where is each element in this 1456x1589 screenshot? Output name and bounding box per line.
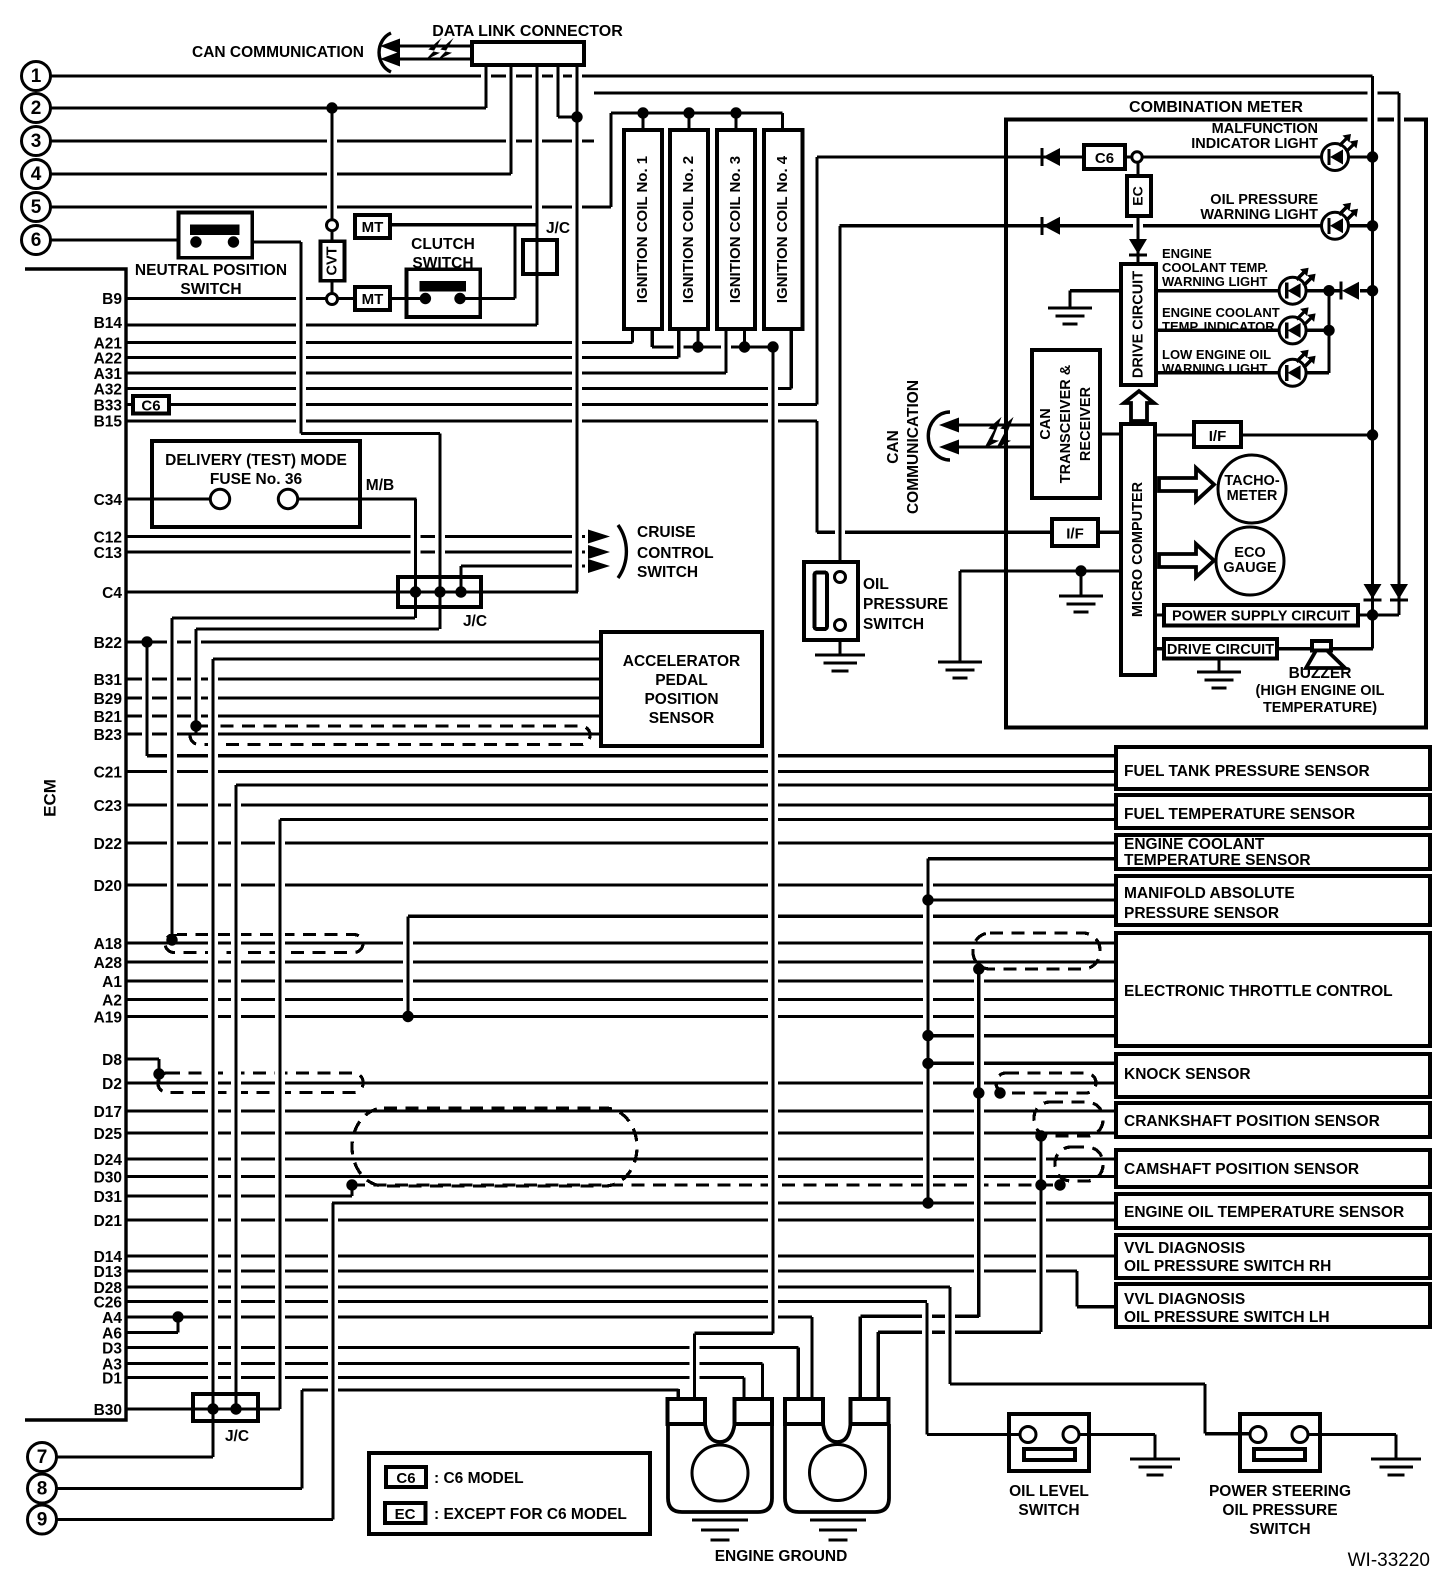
oil pressure switch contact upper (835, 572, 846, 583)
junction dot coil rail 2 (683, 107, 694, 118)
svg-text:B23: B23 (94, 727, 123, 744)
svg-text:(HIGH ENGINE OIL: (HIGH ENGINE OIL (1256, 683, 1385, 699)
stub oil level switch to ground (1153, 1435, 1156, 1460)
wire D13 (126, 1269, 1077, 1272)
engine ground connector right (785, 1399, 823, 1424)
svg-text:B14: B14 (94, 315, 123, 332)
svg-text:B30: B30 (94, 1402, 122, 1419)
wire D24 (126, 1157, 1116, 1160)
wire D13 to VVL LH (1077, 1305, 1116, 1308)
wire junction connector branch 2 (196, 627, 439, 630)
svg-text:CAN: CAN (885, 430, 902, 464)
vertical DLC pin 5 to C4 junction (572, 71, 582, 586)
svg-text:D13: D13 (94, 1264, 123, 1281)
CVT box (321, 241, 345, 280)
vertical MIL branch through EC connector to drive circuit (1133, 169, 1143, 259)
svg-text:SWITCH: SWITCH (637, 564, 698, 581)
stub D8 to D2 shield (157, 1059, 160, 1076)
svg-text:CRANKSHAFT POSITION SENSOR: CRANKSHAFT POSITION SENSOR (1124, 1113, 1380, 1130)
wire B9 to CVT circle (126, 297, 327, 300)
junction connector J/C small box (523, 240, 557, 274)
wire oil pressure warning light row (840, 224, 1322, 227)
svg-text:ELECTRONIC THROTTLE CONTROL: ELECTRONIC THROTTLE CONTROL (1124, 983, 1393, 1000)
wire B14 (126, 323, 537, 326)
MT box lower (355, 287, 390, 310)
svg-text:ECO: ECO (1234, 545, 1265, 561)
svg-text:B9: B9 (102, 291, 122, 308)
svg-text:DATA LINK CONNECTOR: DATA LINK CONNECTOR (432, 23, 623, 40)
wire micro computer to power supply circuit (1155, 613, 1164, 616)
fuse terminal circle right (278, 489, 297, 508)
vertical shield ground drain (974, 975, 984, 1311)
tachometer circle (1218, 455, 1286, 523)
svg-text:SWITCH: SWITCH (863, 616, 924, 633)
vertical D28 drop (945, 1293, 955, 1378)
micro computer box (1121, 424, 1155, 675)
ground oil pressure switch (815, 653, 865, 656)
svg-text:D25: D25 (94, 1126, 123, 1143)
wire sensor ground bus to MAP sensor (928, 898, 1116, 901)
ECM pin circle 9 (28, 1505, 57, 1534)
vertical fuel temp sensor line to B30 (275, 826, 285, 1404)
wire D17 (126, 1109, 1116, 1112)
svg-text:CAN: CAN (1038, 408, 1054, 439)
leg ignition coil 1 signal (628, 335, 638, 337)
wire C21 (126, 770, 1116, 773)
svg-text:OIL PRESSURE: OIL PRESSURE (1210, 192, 1318, 208)
wire pin 9 to engine oil temp sensor (332, 1201, 1116, 1204)
svg-text:IGNITION COIL No. 2: IGNITION COIL No. 2 (680, 156, 697, 303)
junction dot coil ground drop (767, 341, 778, 352)
svg-text:EC: EC (1130, 186, 1146, 205)
oil pressure warning light LED (1322, 212, 1349, 239)
wire diode to rail (1360, 289, 1373, 292)
junction dot LED chain 1 (1323, 285, 1334, 296)
wire circle to MT box (338, 297, 356, 300)
wire B30 through junction connector (126, 1407, 280, 1410)
wire B31 (126, 677, 603, 680)
diode down to drive circuit (1129, 253, 1147, 256)
CVT connector circle lower (327, 294, 338, 305)
wire MIL LED to rail (1349, 155, 1373, 158)
wire junction to accelerator pedal sensor (213, 657, 603, 660)
junction dot ground bus knock (922, 1058, 933, 1069)
junction dot J/C B30 2 (230, 1403, 241, 1414)
svg-text:RECEIVER: RECEIVER (1078, 386, 1094, 461)
vertical DLC pin 4 (553, 71, 563, 111)
wire micro computer to drive circuit (1155, 647, 1164, 650)
svg-text:C6: C6 (396, 1470, 415, 1487)
diode on warning light chain (1339, 282, 1342, 300)
svg-text:METER: METER (1227, 488, 1278, 504)
wire A22 to ignition coil 2 (126, 356, 679, 359)
connector circle after C6 box (1132, 152, 1142, 162)
svg-text:KNOCK SENSOR: KNOCK SENSOR (1124, 1066, 1251, 1083)
vertical pin 9 riser (328, 1209, 338, 1514)
wire B15 jog (126, 419, 817, 422)
vertical power rail to buzzer wire (1371, 615, 1374, 649)
svg-text:4: 4 (31, 164, 42, 185)
svg-text:POSITION: POSITION (644, 691, 718, 708)
wire ECT warning LED to diode (1306, 289, 1341, 292)
svg-text:A2: A2 (102, 993, 122, 1010)
electronic throttle control box (1116, 933, 1430, 1046)
wire to fuel temperature sensor pin 2 (280, 818, 1116, 821)
svg-text:DELIVERY (TEST) MODE: DELIVERY (TEST) MODE (165, 452, 347, 469)
wire D30 (126, 1175, 1116, 1178)
junction dot micro ground (1075, 565, 1086, 576)
svg-text:ACCELERATOR: ACCELERATOR (623, 653, 740, 670)
ECM pin circle 3 (22, 127, 51, 156)
junction dot J/C 3 (455, 586, 466, 597)
svg-text:CVT: CVT (324, 246, 340, 275)
shield capsule at camshaft position sensor (1055, 1147, 1103, 1181)
svg-text:D21: D21 (94, 1213, 123, 1230)
CAN transceiver and receiver box (1032, 350, 1100, 498)
shield capsule at knock sensor (996, 1073, 1096, 1093)
vertical warning light chain (1324, 297, 1334, 367)
svg-text:6: 6 (31, 230, 42, 251)
VVL diagnosis oil pressure switch RH box (1116, 1235, 1430, 1278)
svg-text:COOLANT TEMP.: COOLANT TEMP. (1162, 260, 1268, 275)
wire power supply circuit to diodes (1358, 613, 1399, 616)
junction dot rail power supply (1367, 609, 1378, 620)
wire B22 branch to fuel tank pressure sensor (147, 754, 1116, 757)
interface I/F box (lower) (1052, 519, 1098, 546)
wire pin 8 to engine ground (302, 1388, 678, 1391)
ground micro computer 1 (1059, 594, 1103, 597)
wire A19 branch to MAP sensor (408, 915, 1116, 918)
wire pin 3 segment (50, 139, 594, 142)
svg-text:D8: D8 (102, 1052, 122, 1069)
svg-text:: C6 MODEL: : C6 MODEL (434, 1470, 524, 1487)
junction dot shield drain b (1054, 1179, 1065, 1190)
vertical fuse M/B through junction connector dot 1 (411, 505, 421, 612)
svg-text:DRIVE CIRCUIT: DRIVE CIRCUIT (1167, 642, 1274, 658)
svg-text:J/C: J/C (463, 613, 487, 630)
wire B29 (126, 696, 603, 699)
svg-text:OIL: OIL (863, 576, 889, 593)
wire D31 (126, 1194, 352, 1197)
wire malfunction indicator light row (817, 155, 1322, 158)
eco gauge circle (1216, 527, 1284, 595)
svg-text:WARNING LIGHT: WARNING LIGHT (1200, 207, 1318, 223)
svg-text:SWITCH: SWITCH (1249, 1521, 1310, 1538)
svg-text:SWITCH: SWITCH (412, 255, 473, 272)
wire A4 (126, 1315, 812, 1318)
arrow micro computer to eco gauge (1159, 544, 1214, 577)
vertical neutral position switch drop (296, 248, 306, 428)
svg-text:NEUTRAL POSITION: NEUTRAL POSITION (135, 262, 287, 279)
junction dot wire 2 CVT branch (326, 102, 337, 113)
power supply circuit box (1164, 605, 1358, 626)
junction dot D31 shield drain (346, 1179, 357, 1190)
svg-text:D20: D20 (94, 878, 122, 895)
wire clutch switch to riser (460, 297, 515, 300)
svg-text:C26: C26 (94, 1295, 123, 1312)
svg-text:1: 1 (31, 66, 42, 87)
wire D2 (126, 1081, 1116, 1084)
svg-text:B21: B21 (94, 709, 123, 726)
svg-text:C6: C6 (1095, 150, 1114, 167)
fuse terminal circle left (210, 489, 229, 508)
wire pin 3 upper segment to combination meter (594, 91, 1399, 94)
junction dot coil rail 3 (730, 107, 741, 118)
ignition coil No.2 box (670, 130, 708, 329)
junction dot D8 D2 (153, 1068, 164, 1079)
svg-text:INDICATOR LIGHT: INDICATOR LIGHT (1191, 136, 1318, 152)
ignition coil No.4 box (764, 130, 803, 329)
wire neutral position switch to vertical (252, 240, 301, 243)
engine coolant temp indicator LED (1279, 317, 1306, 344)
svg-text:C12: C12 (94, 530, 122, 547)
ECM connector bracket (25, 269, 126, 1420)
vertical D28 run down (1200, 1390, 1210, 1428)
wire I/F to rail (1241, 433, 1373, 436)
ECM pin circle 5 (22, 193, 51, 222)
svg-text:TEMPERATURE): TEMPERATURE) (1263, 700, 1377, 716)
wire micro computer ground branch (960, 569, 1121, 572)
svg-text:8: 8 (37, 1479, 48, 1500)
junction dot coil rail 1 (637, 107, 648, 118)
wire pin 1 to combination meter right rail (50, 74, 1373, 77)
power steering oil pressure switch box (1240, 1414, 1320, 1471)
svg-text:ENGINE OIL TEMPERATURE SENSOR: ENGINE OIL TEMPERATURE SENSOR (1124, 1204, 1404, 1221)
vertical neutral switch through junction connector dot 2 (435, 440, 445, 624)
vertical A3 into engine ground pin 2 (758, 1370, 768, 1394)
svg-text:IGNITION COIL No. 3: IGNITION COIL No. 3 (727, 156, 744, 303)
svg-text:OIL PRESSURE: OIL PRESSURE (1222, 1502, 1337, 1519)
diode down to power supply rail 2 (1390, 598, 1408, 601)
wire C26 to oil level switch pin (927, 1433, 1020, 1436)
svg-text:DRIVE CIRCUIT: DRIVE CIRCUIT (1130, 271, 1146, 378)
wire neutral switch jog (301, 432, 440, 435)
clutch switch box (407, 269, 481, 317)
stub diode 2 to power wire (1397, 600, 1400, 615)
junction dot J/C 1 (410, 586, 421, 597)
stub ignition coil 4 top (781, 113, 784, 130)
svg-text:D24: D24 (94, 1152, 123, 1169)
vertical D3 into engine ground pin 3 (793, 1354, 803, 1394)
wire A1 (126, 979, 1116, 982)
delivery test mode fuse box (152, 441, 360, 527)
CAN communication arrows top (397, 44, 472, 47)
wire B33 to malfunction indicator feed (126, 403, 817, 406)
vertical coil ground into engine ground pin 1 (690, 1339, 700, 1393)
svg-text:WARNING LIGHT: WARNING LIGHT (1162, 274, 1267, 289)
stub pin8 wire into engine ground pin 1 (677, 1389, 680, 1399)
leg ignition coil 2 ground (693, 335, 703, 341)
junction dot shield drain a (1035, 1179, 1046, 1190)
wire power steering switch to ground (1308, 1433, 1396, 1436)
shield capsule around D2 wire (158, 1073, 363, 1093)
vertical coil rail to wire 5 (606, 119, 616, 201)
svg-text:POWER SUPPLY CIRCUIT: POWER SUPPLY CIRCUIT (1172, 609, 1350, 625)
ground micro computer 2 (938, 660, 982, 663)
wire pin 9 (57, 1518, 333, 1521)
svg-text:A32: A32 (94, 382, 122, 399)
svg-text:MT: MT (362, 291, 384, 308)
wire CAN transceiver to micro computer (1100, 432, 1121, 435)
svg-text:D22: D22 (94, 836, 122, 853)
svg-text:A18: A18 (94, 936, 123, 953)
vertical fuel tank sensor line to junction connector (231, 791, 241, 1403)
svg-text:OIL PRESSURE SWITCH RH: OIL PRESSURE SWITCH RH (1124, 1258, 1331, 1275)
svg-text:SWITCH: SWITCH (1018, 1502, 1079, 1519)
stub micro ground 1 (1079, 571, 1082, 596)
vertical A19 branch to MAP sensor (403, 922, 413, 1011)
svg-text:PRESSURE SENSOR: PRESSURE SENSOR (1124, 905, 1279, 922)
wire B21 (126, 714, 603, 717)
svg-text:COMBINATION METER: COMBINATION METER (1129, 99, 1303, 116)
vertical camshaft shield drain to pin 4 (873, 1338, 883, 1393)
legend box (369, 1453, 650, 1534)
junction dot A19 branch (402, 1011, 413, 1022)
ground oil level switch (1130, 1457, 1180, 1460)
ground power steering switch (1371, 1457, 1421, 1460)
engine coolant temp warning light LED (1279, 277, 1306, 304)
svg-text:ENGINE GROUND: ENGINE GROUND (715, 1548, 848, 1565)
svg-text:SWITCH: SWITCH (180, 281, 241, 298)
svg-text:B22: B22 (94, 635, 122, 652)
svg-text:ENGINE: ENGINE (1162, 246, 1212, 261)
svg-text:: EXCEPT FOR C6 MODEL: : EXCEPT FOR C6 MODEL (434, 1506, 627, 1523)
large shield capsule around D17 D25 D24 D30 wires (352, 1108, 637, 1186)
wire junction connector branch 1 (172, 616, 415, 619)
svg-text:SENSOR: SENSOR (649, 710, 714, 727)
wire A28 (126, 960, 1116, 963)
svg-text:IGNITION COIL No. 1: IGNITION COIL No. 1 (634, 156, 651, 303)
svg-text:WARNING LIGHT: WARNING LIGHT (1162, 361, 1267, 376)
wire camshaft shield drain (878, 1330, 1041, 1333)
wire low engine oil warning light row (1156, 371, 1279, 374)
vertical D1 into engine ground pin 2 (742, 1378, 745, 1400)
ground lower drive circuit (1197, 670, 1241, 673)
dashed shield drain wire from D31 to camshaft sensor shield (352, 1183, 1060, 1186)
svg-text:C34: C34 (94, 492, 123, 509)
wire to power steering switch pin (1205, 1432, 1250, 1435)
wire engine coolant temp warning light row (1156, 289, 1279, 292)
C6 marker box on MIL wire (1084, 145, 1125, 169)
leg ignition coil 3 signal (721, 335, 731, 367)
wire ignition coil ground jog (695, 1332, 774, 1335)
junction dot coil ground rail 1 (692, 341, 703, 352)
wire cruise control switch third (461, 564, 585, 567)
cruise control switch arrows (588, 530, 610, 544)
CVT connector circle upper (327, 220, 338, 231)
junction connector J/C box at B30 (193, 1394, 258, 1421)
wire drive circuit to buzzer (1277, 647, 1373, 650)
wire pin 2 to data link connector (50, 106, 486, 109)
fuel temperature sensor box (1116, 795, 1430, 828)
vertical combination meter rail from wire 3 (1394, 99, 1404, 594)
power steering switch contacts (1250, 1427, 1266, 1443)
svg-text:A31: A31 (94, 366, 123, 383)
wire C12 to cruise control switch (126, 535, 585, 538)
ground engine right (810, 1518, 866, 1521)
neutral position switch box (179, 213, 253, 258)
svg-text:COMMUNICATION: COMMUNICATION (905, 380, 922, 514)
ignition coil supply rail (611, 111, 783, 114)
svg-text:I/F: I/F (1209, 428, 1227, 445)
combination meter box (1006, 120, 1426, 728)
vertical junction branch 1 to A18 (167, 624, 177, 934)
svg-text:7: 7 (37, 1447, 48, 1468)
vertical camshaft shield drain (1036, 1142, 1046, 1326)
svg-text:A1: A1 (102, 974, 122, 991)
svg-text:OIL PRESSURE SWITCH LH: OIL PRESSURE SWITCH LH (1124, 1309, 1330, 1326)
svg-text:CLUTCH: CLUTCH (411, 236, 475, 253)
svg-text:5: 5 (31, 197, 42, 218)
oil pressure switch box (804, 562, 858, 640)
stub ignition coil 3 top (734, 113, 737, 130)
junction dot A18 branch (166, 934, 177, 945)
camshaft position sensor box (1116, 1150, 1430, 1187)
svg-text:TACHO-: TACHO- (1224, 473, 1279, 489)
wire D21 (126, 1218, 1116, 1221)
engine oil temperature sensor box (1116, 1194, 1430, 1228)
svg-text:A19: A19 (94, 1010, 123, 1027)
svg-text:J/C: J/C (225, 1428, 249, 1445)
svg-text:TEMP. INDICATOR: TEMP. INDICATOR (1162, 319, 1275, 334)
engine ground connector left (668, 1399, 706, 1424)
stub power steering switch to ground (1394, 1435, 1397, 1460)
wire D22 (126, 841, 1116, 844)
wire D1 (126, 1376, 744, 1379)
wire drive circuit to ground (1070, 289, 1121, 292)
junction dot rail OPWL (1367, 220, 1378, 231)
oil level switch contacts (1020, 1427, 1036, 1443)
ECM pin circle 4 (22, 160, 51, 189)
svg-text:A4: A4 (102, 1310, 122, 1327)
svg-text:POWER STEERING: POWER STEERING (1209, 1483, 1351, 1500)
wire C23 (126, 803, 1116, 806)
wire A21 to ignition coil 1 (126, 341, 633, 344)
svg-text:B15: B15 (94, 414, 123, 431)
vertical between CVT circles (330, 231, 333, 294)
knock sensor box (1116, 1054, 1430, 1097)
shield capsule at electronic throttle control A18 A28 (973, 933, 1100, 969)
junction dot A4 A6 (172, 1311, 183, 1322)
wire C34 to fuse (126, 497, 211, 500)
wire D25 (126, 1131, 1116, 1134)
low engine oil warning light LED (1279, 359, 1306, 386)
drive circuit box (lower) (1164, 639, 1277, 659)
wire I/F to micro computer (1098, 531, 1121, 534)
junction dot J/C B30 1 (207, 1403, 218, 1414)
stub oil pressure switch to ground (838, 640, 841, 655)
svg-text:PEDAL: PEDAL (655, 672, 708, 689)
neutral position switch contact (190, 225, 240, 236)
svg-text:CONTROL: CONTROL (637, 545, 714, 562)
legend EC box (385, 1503, 426, 1523)
svg-text:3: 3 (31, 131, 42, 152)
vertical pin 8 riser (297, 1396, 307, 1483)
svg-text:D17: D17 (94, 1104, 122, 1121)
wire to fuel tank pressure sensor pin 3 (236, 783, 1116, 786)
ECM pin circle 1 (22, 62, 51, 91)
svg-text:PRESSURE: PRESSURE (863, 596, 948, 613)
svg-text:BUZZER: BUZZER (1289, 665, 1352, 682)
vertical DLC pin 1 to wire 2 (481, 71, 491, 102)
wire D20 (126, 883, 1116, 886)
svg-text:TRANSCEIVER &: TRANSCEIVER & (1058, 364, 1074, 483)
svg-text:J/C: J/C (546, 220, 570, 237)
svg-text:C6: C6 (141, 398, 160, 415)
wire sensor ground bus to throttle control (928, 1034, 1116, 1037)
vertical DLC pin 3 to wire B14 (532, 71, 542, 319)
arrow micro computer to tachometer (1159, 468, 1214, 501)
